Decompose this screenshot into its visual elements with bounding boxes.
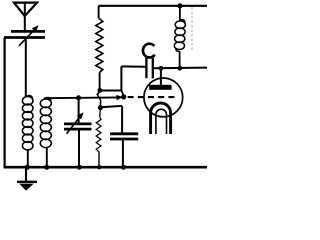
wire: left ground rail [3, 38, 5, 168]
junction dot (plate lead) [159, 66, 164, 71]
junction dot [44, 165, 49, 170]
variable capacitor C1 arrow [19, 25, 39, 46]
wire: bottom ground bus [4, 166, 208, 169]
wire: down to tuning cap [78, 98, 80, 123]
wire: plate line from grid cap to right edge [153, 67, 207, 70]
junction dot C [98, 105, 103, 110]
inductor L2 (secondary / tuned coil) [40, 97, 51, 147]
tuning capacitor arrow [67, 112, 84, 133]
junction dot [121, 165, 126, 170]
junction dot B (grid) [121, 94, 126, 99]
wire: diagonal riser to grid junction [121, 91, 123, 96]
junction dot (tuning cap top) [76, 95, 81, 100]
junction dot (choke bottom) [177, 66, 182, 71]
resistor R2 [96, 110, 101, 167]
wire: dot A to grid-cap riser [100, 90, 122, 92]
junction dot A [97, 88, 102, 93]
resistor R1 (grid leak) [96, 6, 103, 89]
wire: dot C to bypass cap [100, 106, 122, 107]
wire: grid line from L2 top (drawn as arrow into grid junction) [45, 96, 119, 99]
triode V1: grid (dashed) [128, 96, 178, 98]
triode V1: plate bar [149, 85, 171, 90]
inductor L1 (antenna coil) [22, 95, 33, 149]
grid capacitor C plates [146, 57, 152, 78]
wire: tuning cap to bus [78, 129, 80, 167]
RF choke L3 [174, 6, 185, 68]
wire: L1 to bus [27, 149, 29, 167]
junction dot [77, 165, 82, 170]
wire: to grid capacitor [121, 65, 146, 67]
junction dot [25, 165, 30, 170]
ground [17, 167, 37, 190]
triode V1: filament inner arch [156, 109, 167, 134]
triode V1: cathode/filament outer arch [151, 103, 171, 134]
wire: antenna cap down to L1 [25, 38, 27, 98]
antenna [14, 3, 37, 31]
variable capacitor C1 (antenna trimmer) plates [4, 31, 45, 37]
label C [143, 44, 155, 58]
wire: riser up [120, 66, 122, 91]
wire: L2 to bus [46, 147, 48, 167]
wire: B+ top rail [99, 5, 207, 7]
triode V1: plate lead [160, 68, 162, 85]
wire: bypass cap to bus [122, 139, 124, 167]
variable tuning capacitor plates [64, 124, 92, 129]
bypass capacitor [110, 134, 138, 139]
triode V1: envelope [144, 78, 183, 117]
junction dot (choke top) [177, 3, 182, 8]
wire: faint riser near right edge [191, 7, 193, 52]
arrowhead at grid junction [116, 95, 123, 100]
junction dot [97, 165, 101, 169]
wire: link dot A to dot C crossing grid line [97, 92, 101, 106]
